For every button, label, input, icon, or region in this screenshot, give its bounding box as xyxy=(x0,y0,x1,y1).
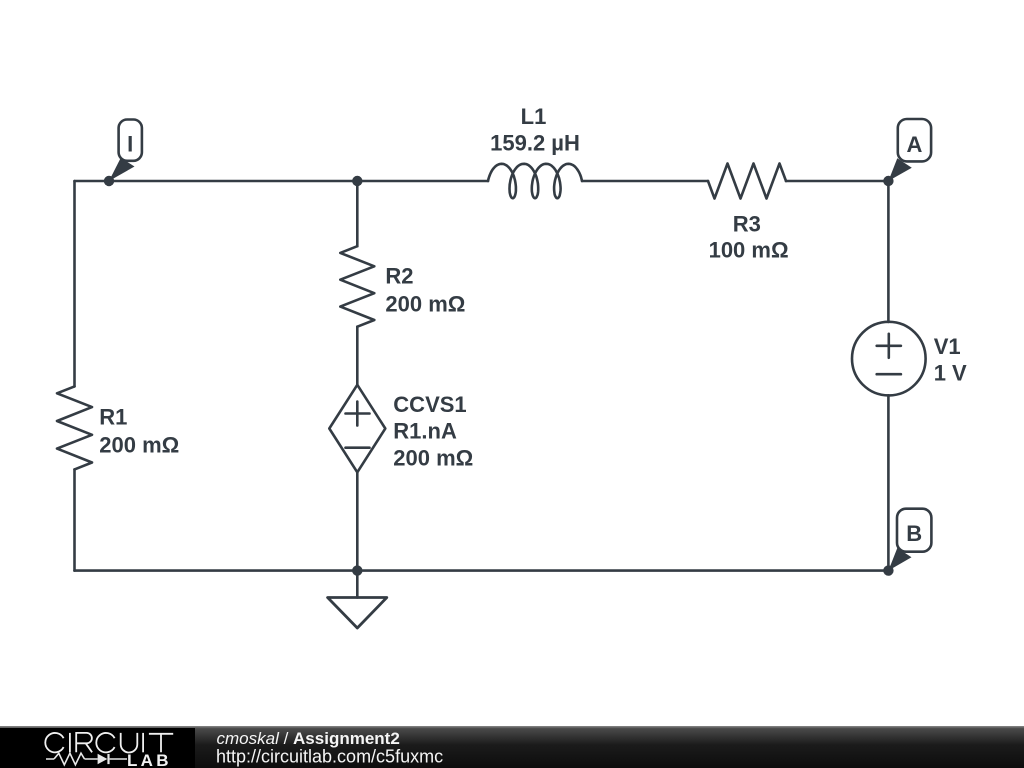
node B flag pill xyxy=(897,509,931,552)
svg-text:200 mΩ: 200 mΩ xyxy=(393,446,473,471)
logo word CIRCUIT xyxy=(45,733,173,753)
junction bottom middle dot xyxy=(352,565,362,575)
wire right vertical upper xyxy=(887,181,890,322)
svg-text:100 mΩ: 100 mΩ xyxy=(709,238,789,263)
wire top right segment xyxy=(786,180,888,183)
logo resistor-diode glyph wire xyxy=(46,758,127,760)
wire left vertical lower xyxy=(73,469,76,570)
wire ground stem xyxy=(356,571,359,598)
resistor R3 xyxy=(708,164,786,199)
node I flag pointer xyxy=(109,158,135,181)
svg-text:159.2 µH: 159.2 µH xyxy=(490,131,580,156)
svg-text:B: B xyxy=(906,521,922,546)
svg-text:R1: R1 xyxy=(99,405,127,430)
CCVS1 diamond body xyxy=(329,385,385,473)
svg-text:R3: R3 xyxy=(733,212,761,237)
V1 minus sign xyxy=(877,373,901,376)
resistor R2 xyxy=(340,246,374,327)
wire middle vertical upper xyxy=(356,181,359,246)
svg-text:200 mΩ: 200 mΩ xyxy=(385,291,465,316)
ground symbol triangle xyxy=(328,598,387,629)
svg-text:R2: R2 xyxy=(385,264,413,289)
footer logo block xyxy=(0,728,195,768)
logo diode triangle xyxy=(98,754,108,764)
CCVS1 plus sign xyxy=(346,402,370,426)
svg-text:L1: L1 xyxy=(521,104,547,129)
svg-text:LAB: LAB xyxy=(127,751,172,768)
logo diode cathode bar xyxy=(107,754,109,764)
V1 plus sign xyxy=(877,334,901,358)
svg-text:A: A xyxy=(906,132,922,157)
inductor L1 coil xyxy=(488,164,582,198)
svg-text:200 mΩ: 200 mΩ xyxy=(99,432,179,457)
node B flag pointer xyxy=(888,548,911,571)
node A flag pill xyxy=(898,119,931,161)
CCVS1 minus sign xyxy=(346,446,370,449)
junction node A dot xyxy=(883,176,893,186)
node A flag pointer xyxy=(888,158,911,181)
junction top middle dot xyxy=(352,176,362,186)
wire top middle segment xyxy=(582,180,708,183)
wire middle below CCVS1 xyxy=(356,472,359,570)
svg-text:cmoskal / Assignment2: cmoskal / Assignment2 xyxy=(217,729,400,748)
node I flag pill xyxy=(119,120,142,161)
svg-text:1 V: 1 V xyxy=(934,361,967,386)
svg-text:V1: V1 xyxy=(934,334,961,359)
junction node B dot xyxy=(883,565,893,575)
wire middle between R2 and CCVS1 xyxy=(356,327,359,385)
wire right vertical lower xyxy=(887,395,890,570)
wire bottom xyxy=(75,569,889,572)
svg-text:CCVS1: CCVS1 xyxy=(393,392,466,417)
svg-text:R1.nA: R1.nA xyxy=(393,419,457,444)
logo resistor zigzag xyxy=(54,753,85,765)
svg-text:I: I xyxy=(127,132,133,157)
resistor R1 xyxy=(57,386,92,469)
voltage source V1 circle xyxy=(852,322,926,396)
wire top left segment xyxy=(75,180,489,183)
wire left vertical upper xyxy=(73,181,76,386)
footer bar background xyxy=(0,726,1024,768)
junction node I dot xyxy=(104,176,114,186)
svg-text:http://circuitlab.com/c5fuxmc: http://circuitlab.com/c5fuxmc xyxy=(216,747,443,767)
